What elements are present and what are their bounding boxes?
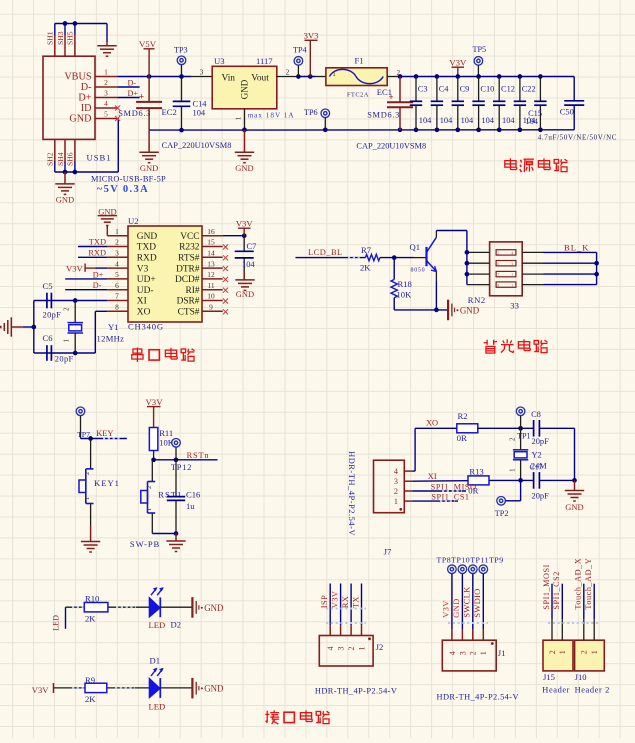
svg-text:SH3: SH3 — [56, 31, 65, 45]
svg-text:V5V: V5V — [139, 39, 157, 49]
svg-text:12MHz: 12MHz — [97, 334, 125, 344]
svg-text:4.7uF/50V/NE/50V/NC: 4.7uF/50V/NE/50V/NC — [538, 133, 617, 141]
svg-text:2: 2 — [347, 647, 356, 651]
svg-text:3: 3 — [458, 651, 467, 655]
svg-text:Q1: Q1 — [410, 242, 421, 252]
svg-text:1: 1 — [590, 650, 599, 654]
svg-text:5: 5 — [115, 270, 119, 279]
svg-text:LED: LED — [52, 615, 61, 631]
svg-text:DTR#: DTR# — [176, 264, 200, 274]
svg-text:U3: U3 — [214, 56, 225, 66]
svg-text:RST1: RST1 — [158, 490, 182, 500]
svg-text:D-: D- — [81, 82, 92, 93]
svg-text:J7: J7 — [384, 547, 392, 557]
svg-text:HDR-TH_4P-P2.54-V: HDR-TH_4P-P2.54-V — [437, 693, 519, 702]
svg-text:D1: D1 — [150, 655, 161, 665]
svg-text:1: 1 — [479, 651, 488, 655]
svg-text:8: 8 — [115, 303, 119, 312]
svg-text:SW-PB: SW-PB — [130, 539, 160, 549]
svg-text:V3V: V3V — [145, 397, 163, 407]
svg-text:4: 4 — [448, 651, 457, 655]
svg-text:LCD_BL: LCD_BL — [308, 248, 343, 257]
svg-text:1: 1 — [64, 339, 71, 342]
svg-text:TP12: TP12 — [171, 463, 192, 472]
svg-text:V3V: V3V — [66, 263, 84, 273]
svg-text:1: 1 — [357, 647, 366, 651]
svg-text:TP7: TP7 — [77, 430, 90, 439]
svg-text:GND: GND — [204, 684, 224, 694]
svg-text:SH6: SH6 — [66, 152, 75, 166]
svg-text:SPI1_MOSI: SPI1_MOSI — [542, 564, 551, 609]
svg-text:Vin: Vin — [222, 73, 236, 83]
svg-text:3: 3 — [394, 477, 398, 486]
svg-text:V3V: V3V — [329, 590, 339, 608]
svg-text:RI#: RI# — [185, 286, 199, 296]
svg-text:+: + — [139, 92, 144, 102]
svg-text:TX: TX — [350, 596, 360, 609]
svg-text:R18: R18 — [398, 279, 412, 289]
svg-text:V3V: V3V — [449, 57, 467, 67]
svg-text:R10: R10 — [85, 593, 99, 603]
svg-text:HDR-TH_4P-P2.54-V: HDR-TH_4P-P2.54-V — [347, 451, 356, 536]
svg-text:C9: C9 — [460, 84, 470, 93]
svg-text:TXD: TXD — [89, 238, 106, 247]
svg-text:XI: XI — [137, 297, 147, 307]
svg-text:max 18V 1A: max 18V 1A — [248, 112, 295, 120]
svg-text:7: 7 — [497, 273, 499, 277]
svg-text:C7: C7 — [247, 242, 257, 251]
svg-text:6: 6 — [115, 281, 119, 290]
svg-text:C16: C16 — [186, 490, 201, 500]
svg-text:D+: D+ — [128, 89, 139, 98]
svg-text:C5: C5 — [43, 281, 53, 291]
svg-text:R13: R13 — [469, 466, 483, 476]
svg-text:GND: GND — [137, 232, 158, 242]
svg-text:12: 12 — [207, 270, 215, 279]
svg-text:HDR-TH_4P-P2.54-V: HDR-TH_4P-P2.54-V — [315, 687, 397, 696]
svg-text:2: 2 — [511, 273, 513, 277]
svg-text:2: 2 — [64, 307, 71, 311]
svg-text:16: 16 — [207, 227, 215, 236]
svg-text:KEY: KEY — [96, 429, 113, 438]
svg-text:C22: C22 — [522, 84, 536, 93]
svg-text:15: 15 — [207, 238, 215, 247]
svg-text:C3: C3 — [418, 84, 428, 93]
svg-text:GND: GND — [460, 305, 480, 315]
svg-text:R232: R232 — [179, 243, 200, 253]
svg-text:4: 4 — [104, 99, 108, 108]
svg-text:R9: R9 — [85, 675, 95, 685]
svg-text:GND: GND — [56, 195, 74, 205]
svg-text:CTS#: CTS# — [178, 308, 200, 318]
svg-text:J2: J2 — [376, 642, 384, 652]
svg-text:J15: J15 — [543, 672, 555, 682]
svg-text:CAP_220U10VSM8: CAP_220U10VSM8 — [356, 142, 426, 151]
svg-text:GND: GND — [235, 163, 253, 173]
svg-text:RXD: RXD — [137, 254, 157, 264]
svg-text:TP5: TP5 — [473, 45, 487, 54]
svg-text:GND: GND — [451, 598, 461, 617]
svg-text:1: 1 — [146, 508, 153, 511]
svg-text:RSTn: RSTn — [187, 451, 210, 460]
svg-text:1: 1 — [558, 650, 567, 654]
svg-text:VBUS: VBUS — [64, 72, 92, 83]
svg-text:LED: LED — [149, 620, 166, 630]
svg-text:10K: 10K — [397, 290, 413, 300]
svg-text:CAP_220U10VSM8: CAP_220U10VSM8 — [162, 141, 232, 150]
svg-text:SH5: SH5 — [66, 31, 75, 45]
svg-text:104: 104 — [242, 260, 255, 269]
svg-text:C17: C17 — [530, 463, 543, 472]
svg-text:Touch_AD_X: Touch_AD_X — [574, 558, 583, 610]
svg-text:GND: GND — [140, 163, 158, 173]
svg-text:SWCLK: SWCLK — [462, 586, 472, 618]
svg-text:D+: D+ — [78, 93, 91, 104]
svg-text:SH2: SH2 — [46, 152, 55, 166]
svg-text:20pF: 20pF — [43, 311, 62, 320]
svg-text:RX: RX — [340, 595, 350, 608]
svg-text:Touch_AD_Y: Touch_AD_Y — [584, 558, 593, 610]
svg-text:0R: 0R — [457, 433, 467, 443]
svg-text:DCD#: DCD# — [175, 275, 200, 285]
svg-text:Vout: Vout — [251, 73, 269, 83]
svg-text:1: 1 — [104, 68, 108, 77]
svg-text:1117: 1117 — [256, 56, 273, 66]
svg-text:R11: R11 — [159, 428, 173, 438]
svg-text:TXD: TXD — [137, 243, 156, 253]
svg-text:GND: GND — [240, 79, 250, 99]
svg-text:C12: C12 — [501, 84, 515, 93]
svg-text:LED: LED — [149, 702, 166, 712]
svg-text:3: 3 — [511, 262, 513, 266]
svg-text:ISP: ISP — [319, 595, 329, 608]
svg-text:5: 5 — [104, 110, 108, 119]
svg-text:8050: 8050 — [411, 267, 426, 273]
svg-text:20pF: 20pF — [532, 437, 550, 446]
svg-text:SPI1_CS2: SPI1_CS2 — [552, 571, 561, 610]
svg-text:J10: J10 — [575, 672, 587, 682]
svg-text:5: 5 — [497, 252, 499, 256]
svg-text:1: 1 — [510, 468, 517, 471]
svg-text:104: 104 — [440, 116, 453, 125]
svg-text:GND: GND — [565, 502, 583, 512]
svg-text:C4: C4 — [439, 84, 450, 93]
svg-text:C14: C14 — [193, 99, 208, 108]
svg-text:3: 3 — [337, 647, 346, 651]
svg-text:104: 104 — [502, 116, 515, 125]
svg-text:2K: 2K — [85, 694, 96, 704]
svg-text:TP6: TP6 — [304, 108, 318, 117]
svg-text:RTS#: RTS# — [178, 254, 200, 264]
svg-text:7: 7 — [115, 292, 119, 301]
svg-text:2: 2 — [469, 651, 478, 655]
svg-text:R7: R7 — [361, 245, 372, 255]
svg-text:UD-: UD- — [137, 286, 154, 296]
svg-text:GND: GND — [69, 114, 91, 125]
svg-text:6: 6 — [497, 262, 499, 266]
svg-text:104: 104 — [525, 117, 538, 126]
svg-text:TP2: TP2 — [495, 509, 509, 518]
svg-text:D-: D- — [93, 281, 102, 290]
svg-text:V3V: V3V — [236, 219, 254, 229]
svg-text:SMD6.3: SMD6.3 — [118, 109, 151, 118]
svg-text:EC2: EC2 — [162, 107, 177, 117]
svg-text:20pF: 20pF — [532, 491, 550, 500]
svg-text:D-: D- — [128, 79, 137, 88]
svg-text:3: 3 — [104, 89, 108, 98]
svg-text:D+: D+ — [93, 270, 104, 279]
svg-text:Header 2: Header 2 — [575, 685, 610, 694]
svg-text:2K: 2K — [360, 263, 371, 273]
svg-text:F1: F1 — [355, 56, 364, 66]
svg-text:Y2: Y2 — [532, 451, 542, 460]
svg-text:C10: C10 — [480, 84, 494, 93]
svg-text:2: 2 — [548, 650, 557, 654]
svg-text:C6: C6 — [43, 333, 54, 343]
svg-text:TP3: TP3 — [174, 45, 188, 54]
svg-text:SH4: SH4 — [56, 152, 65, 166]
svg-text:104: 104 — [419, 116, 432, 125]
svg-text:20pF: 20pF — [55, 355, 74, 364]
svg-text:GND: GND — [236, 289, 254, 299]
svg-text:1: 1 — [115, 227, 119, 236]
svg-text:C8: C8 — [531, 410, 541, 419]
svg-text:RN2: RN2 — [468, 295, 486, 305]
svg-text:XO: XO — [426, 418, 438, 427]
svg-text:J1: J1 — [498, 648, 506, 658]
svg-text:104: 104 — [461, 116, 474, 125]
svg-text:11: 11 — [207, 281, 214, 290]
svg-text:2: 2 — [580, 650, 589, 654]
svg-text:4: 4 — [115, 259, 119, 268]
svg-text:GND: GND — [204, 603, 224, 613]
svg-text:SH1: SH1 — [46, 31, 55, 45]
svg-text:9: 9 — [209, 303, 213, 312]
svg-text:1u: 1u — [186, 501, 195, 511]
svg-text:U2: U2 — [128, 216, 139, 226]
svg-text:2: 2 — [510, 437, 517, 441]
svg-text:V3V: V3V — [441, 600, 451, 618]
svg-text:CH340G: CH340G — [128, 322, 164, 332]
svg-text:TP1: TP1 — [517, 431, 531, 440]
svg-text:104: 104 — [193, 108, 206, 117]
svg-text:1: 1 — [394, 497, 398, 506]
svg-text:10: 10 — [207, 292, 215, 301]
svg-text:3V3: 3V3 — [304, 31, 319, 41]
svg-text:~5V 0.3A: ~5V 0.3A — [97, 184, 149, 195]
svg-text:2: 2 — [146, 486, 153, 489]
svg-text:DSR#: DSR# — [177, 297, 200, 307]
svg-text:1: 1 — [84, 497, 91, 500]
svg-text:2: 2 — [286, 67, 290, 76]
svg-text:TP4: TP4 — [293, 46, 307, 55]
svg-text:2: 2 — [115, 238, 119, 247]
svg-text:13: 13 — [207, 259, 215, 268]
svg-text:UD+: UD+ — [137, 275, 156, 285]
svg-text:4: 4 — [394, 467, 398, 476]
svg-text:4: 4 — [511, 252, 513, 256]
svg-text:2: 2 — [104, 78, 108, 87]
svg-text:V3: V3 — [137, 264, 149, 274]
svg-text:MICRO-USB-BF-5P: MICRO-USB-BF-5P — [91, 175, 166, 184]
svg-text:VCC: VCC — [180, 232, 199, 242]
svg-text:2: 2 — [84, 472, 91, 475]
svg-text:USB1: USB1 — [87, 153, 112, 163]
svg-text:SWDIO: SWDIO — [472, 588, 482, 617]
svg-text:104: 104 — [481, 116, 494, 125]
svg-text:TP8TP10TP11TP9: TP8TP10TP11TP9 — [437, 556, 504, 565]
svg-text:2K: 2K — [85, 613, 96, 623]
svg-text:XI: XI — [428, 472, 437, 481]
svg-text:C50: C50 — [560, 108, 574, 117]
svg-text:14: 14 — [207, 249, 215, 258]
svg-text:2: 2 — [394, 487, 398, 496]
svg-text:3: 3 — [115, 249, 119, 258]
svg-text:GND: GND — [98, 206, 116, 216]
svg-text:ID: ID — [81, 103, 92, 114]
svg-text:Header: Header — [542, 685, 570, 694]
svg-text:SMD6.3: SMD6.3 — [367, 110, 400, 119]
svg-text:V3V: V3V — [32, 685, 50, 695]
svg-text:1: 1 — [235, 116, 243, 120]
svg-text:RXD: RXD — [88, 248, 106, 257]
svg-text:Y1: Y1 — [108, 322, 119, 332]
svg-text:FTC2A: FTC2A — [347, 91, 369, 98]
svg-text:XO: XO — [137, 308, 151, 318]
svg-text:KEY1: KEY1 — [94, 478, 120, 488]
svg-text:33: 33 — [510, 300, 519, 310]
svg-text:4: 4 — [326, 647, 335, 651]
svg-text:D2: D2 — [171, 620, 182, 630]
svg-text:1: 1 — [511, 284, 513, 288]
svg-text:BL_K: BL_K — [564, 243, 589, 253]
svg-text:R2: R2 — [458, 411, 468, 421]
svg-text:3: 3 — [200, 67, 204, 76]
svg-text:+: + — [389, 92, 394, 102]
svg-text:8: 8 — [497, 284, 499, 288]
